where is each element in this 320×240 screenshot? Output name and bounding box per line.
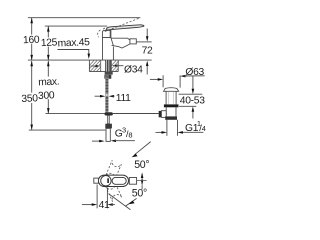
threaded rod upper xyxy=(105,79,108,93)
deck hole edges xyxy=(100,60,102,72)
faucet body right edge xyxy=(112,47,114,60)
dimension max.300 line xyxy=(47,61,49,114)
top view lever tip xyxy=(129,178,136,185)
svg-text:Ø34: Ø34 xyxy=(124,65,143,76)
dimension 72 top tail xyxy=(146,29,148,38)
dimension 72 bottom tail xyxy=(146,65,148,75)
connector rod xyxy=(107,116,109,124)
shank threads xyxy=(105,60,111,72)
drain plug flange xyxy=(164,88,179,92)
dimension 125 label xyxy=(40,37,56,46)
dimension 160 label xyxy=(23,35,39,44)
extension line 300 level xyxy=(46,113,105,115)
dimension max.45 leader xyxy=(58,50,89,56)
top view stadium body xyxy=(98,175,128,186)
dimension O63 extension lines xyxy=(162,75,164,87)
dimension O63 right arrow xyxy=(180,75,185,78)
dimension 41 extension lines xyxy=(96,185,98,209)
svg-text:111: 111 xyxy=(116,93,131,104)
dimension 50 upper leader xyxy=(135,142,151,155)
svg-text:72: 72 xyxy=(142,46,153,57)
handle base xyxy=(102,30,111,37)
deck outline xyxy=(88,60,90,72)
deck left hatch xyxy=(83,60,111,73)
faucet spout top xyxy=(111,38,130,40)
drain gasket xyxy=(164,104,179,107)
aerator xyxy=(130,39,136,44)
dimension O34 left arrow xyxy=(90,65,96,67)
lever rotation dashed lower xyxy=(106,182,122,202)
pop-up rod faucet side xyxy=(113,113,159,115)
dimension 111 arrow xyxy=(95,95,102,97)
top view spout nub xyxy=(94,178,99,183)
extension line top (160 level) xyxy=(28,17,140,19)
lever blade xyxy=(106,25,144,30)
threaded rod lower xyxy=(105,97,108,113)
dimension 160 arrows xyxy=(30,18,33,23)
faucet spout underside xyxy=(112,44,130,48)
lever centerline xyxy=(137,179,147,181)
drain locknut xyxy=(165,116,177,119)
dimension 40-53 arrows xyxy=(192,76,194,90)
supply tube G3/8 xyxy=(106,128,110,141)
lever swing double arrow xyxy=(141,174,143,185)
extension line 350 level xyxy=(29,129,106,131)
top view pivot pin xyxy=(107,178,109,183)
drain body xyxy=(165,91,167,104)
dimension max.300 arrows xyxy=(47,61,50,66)
mounting nut xyxy=(105,72,113,75)
top view aerator circle xyxy=(101,176,111,186)
extension line aerator xyxy=(136,41,151,43)
svg-text:4: 4 xyxy=(202,124,206,133)
svg-text:Ø63: Ø63 xyxy=(185,67,204,78)
svg-text:160: 160 xyxy=(23,35,40,47)
dimension 160 line xyxy=(31,18,33,60)
drain mid section xyxy=(165,107,167,116)
dimension 350 line xyxy=(31,61,33,130)
hose end fitting xyxy=(105,112,113,115)
dimension max.300 labels xyxy=(38,77,60,100)
svg-text:350: 350 xyxy=(21,93,38,105)
pop-up rod clamp xyxy=(159,111,162,117)
dimension O63 left arrow xyxy=(150,78,159,80)
svg-text:50°: 50° xyxy=(134,159,149,171)
hose clip xyxy=(109,75,111,79)
lever raised dashed xyxy=(105,18,140,32)
dimension G3/8 arrows xyxy=(92,140,101,142)
faucet body xyxy=(103,37,114,60)
dimension 50 lower branch xyxy=(125,198,136,206)
dimension 41 label xyxy=(98,200,107,209)
dimension 125 arrows xyxy=(47,26,50,31)
dimension O34 right arrow xyxy=(112,64,117,67)
dimension 41 arrows xyxy=(82,204,93,206)
extension line 125 level xyxy=(45,25,108,27)
dimension 125 line xyxy=(47,26,49,60)
svg-text:50°: 50° xyxy=(132,188,147,200)
dimension 350 label xyxy=(21,93,40,103)
dimension 40-53 label xyxy=(180,95,204,103)
handle dashed arc xyxy=(98,30,101,37)
svg-text:125: 125 xyxy=(41,37,58,49)
dimension 350 arrows xyxy=(30,61,33,66)
dimension 40-53 extension lines xyxy=(179,93,203,95)
lever rotation dashed upper xyxy=(106,160,122,179)
supply nut xyxy=(105,124,112,129)
extension line deck top (long) xyxy=(28,59,152,61)
svg-text:41: 41 xyxy=(99,200,110,211)
top view lever slot xyxy=(112,177,126,184)
svg-text:40-53: 40-53 xyxy=(180,96,205,107)
handle ghost dashes xyxy=(103,27,108,29)
rod waist xyxy=(106,93,108,97)
dimension 50 lower leader xyxy=(109,194,131,210)
svg-text:max.45: max.45 xyxy=(57,37,90,49)
svg-text:8: 8 xyxy=(128,130,132,139)
clamp block xyxy=(161,111,166,118)
deck right hatch xyxy=(105,60,126,73)
dimension G1 1/4 arrows xyxy=(156,131,163,133)
drain tailpipe xyxy=(166,120,168,136)
svg-text:max.: max. xyxy=(38,77,60,89)
svg-text:300: 300 xyxy=(38,90,55,102)
